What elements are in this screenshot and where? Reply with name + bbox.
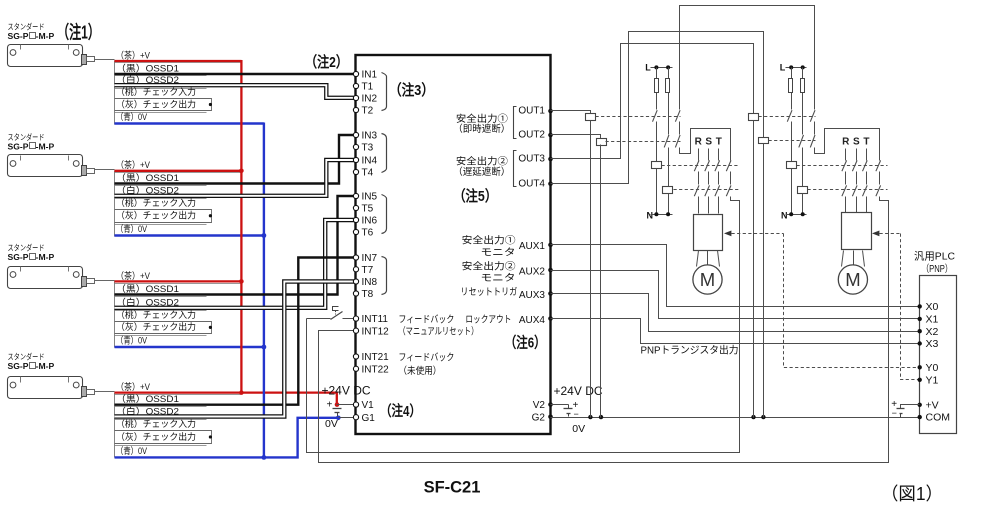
terminal IN2 — [353, 95, 358, 100]
PLC terminal X1 — [918, 317, 922, 321]
wire: sensor U1 pigtail — [95, 59, 115, 61]
svg-text:（青）0V: （青）0V — [116, 223, 148, 234]
svg-text:ロックアウト: ロックアウト — [465, 313, 511, 325]
sensor U2 wire label table — [114, 171, 116, 237]
wire: sensor U1 OSSD2 (double line) to IN2 — [115, 85, 354, 98]
wire: OUT4 riser to rail B — [551, 32, 764, 184]
svg-text:SG-P: SG-P — [8, 252, 29, 262]
wire: AUX3 to PLC X2 — [551, 294, 920, 332]
sensor U1 connector — [82, 55, 87, 65]
svg-text:-M-P: -M-P — [36, 142, 55, 152]
svg-text:OUT2: OUT2 — [518, 130, 545, 141]
terminal INT22 — [353, 366, 358, 371]
wire: sensor U4 OSSD2 (double line) to IN8 — [115, 282, 354, 417]
svg-text:（マニュアルリセット）: （マニュアルリセット） — [398, 326, 478, 338]
switch S1 manual reset at INT11 — [331, 312, 343, 320]
svg-text:（灰）チェック出力: （灰）チェック出力 — [116, 431, 196, 442]
wire: sensor U3 0V (blue) — [115, 346, 264, 348]
node: coil return junction — [761, 415, 765, 419]
terminal T5 — [353, 205, 358, 210]
svg-text:スタンダード: スタンダード — [8, 243, 45, 253]
wire: AUX1 to PLC X0 — [551, 245, 920, 307]
svg-text:（桃）チェック入力: （桃）チェック入力 — [116, 418, 196, 429]
svg-text:（桃）チェック入力: （桃）チェック入力 — [116, 309, 196, 320]
wire: sensor U1 0V (blue) — [115, 122, 264, 124]
svg-text:+V: +V — [926, 399, 939, 411]
svg-text:（注2）: （注2） — [305, 53, 348, 71]
svg-text:IN1: IN1 — [362, 70, 378, 81]
wire: +V red bus vertical — [240, 60, 242, 393]
svg-text:SG-P: SG-P — [8, 31, 29, 41]
dashed link: K3 to contacts — [759, 116, 816, 118]
svg-text:フィードバック: フィードバック — [398, 313, 454, 325]
wire: INT12 feedback loop (EDM right) — [319, 201, 889, 463]
dashed link: K2 to contacts — [606, 141, 681, 143]
node: coil return junction — [599, 415, 603, 419]
node: red bus junction S3 — [239, 279, 244, 284]
svg-text:S: S — [853, 137, 860, 148]
node: blue bus junction S3 — [262, 345, 267, 350]
contactor coil K1 — [586, 114, 596, 121]
svg-text:スタンダード: スタンダード — [8, 132, 45, 142]
wire: sensor U3 OSSD1 to IN5 — [115, 196, 354, 295]
svg-text:R: R — [842, 137, 850, 148]
svg-text:+24V DC: +24V DC — [554, 384, 603, 398]
PLC terminal COM — [918, 415, 922, 419]
PLC box — [920, 276, 957, 434]
svg-text:+24V DC: +24V DC — [322, 384, 371, 398]
three-phase lines with main contacts (right) — [845, 149, 847, 161]
sensor U3 wire label table — [114, 281, 116, 348]
svg-text:X1: X1 — [926, 314, 939, 326]
motor drive box (left) — [694, 215, 723, 251]
terminal T6 — [353, 229, 358, 234]
contactor coil K2 — [597, 139, 607, 146]
svg-text:AUX4: AUX4 — [519, 315, 546, 326]
svg-text:AUX2: AUX2 — [519, 266, 546, 277]
wire: K1 coil return to 0V — [590, 121, 592, 418]
svg-text:INT21: INT21 — [362, 352, 390, 363]
svg-text:M: M — [845, 269, 860, 290]
safety controller U5 SF-C21 box — [356, 55, 551, 434]
terminal INT12 — [353, 328, 358, 333]
svg-text:（注1）: （注1） — [57, 22, 100, 43]
contactor coil MC4 — [798, 187, 808, 194]
wire: OUT3 riser to rail C — [551, 44, 754, 159]
motor M2 — [838, 265, 867, 294]
PLC terminal +V — [918, 403, 922, 407]
node: coil return junction — [751, 415, 755, 419]
svg-text:安全出力②: 安全出力② — [462, 260, 516, 273]
terminal AUX2 — [548, 268, 553, 273]
svg-text:IN6: IN6 — [362, 216, 378, 227]
motor M1 — [693, 265, 722, 294]
svg-text:T2: T2 — [362, 106, 374, 117]
terminal IN4 — [353, 157, 358, 162]
input group bracket — [382, 195, 387, 234]
wire: OUT1 to contactor coil K1 — [551, 111, 591, 114]
svg-text:V2: V2 — [533, 400, 546, 411]
wire: INT11 feedback loop (EDM left) — [307, 318, 331, 320]
svg-text:V1: V1 — [362, 400, 375, 411]
svg-text:T5: T5 — [362, 204, 374, 215]
motor drive box (right) — [842, 213, 872, 250]
three-phase lines with main contacts (left) — [698, 149, 700, 161]
svg-text:M: M — [700, 269, 715, 290]
wires: drive to motor (left) — [697, 251, 699, 267]
svg-text:-M-P: -M-P — [36, 31, 55, 41]
node: coil return junction — [588, 415, 592, 419]
svg-text:（灰）チェック出力: （灰）チェック出力 — [116, 210, 196, 221]
dashed link: MC4 to main contacts — [808, 189, 888, 191]
wire: AUX2 to PLC X1 — [551, 271, 920, 319]
wire: sensor U2 +V (brown/red) — [115, 170, 242, 172]
terminal OUT4 — [548, 181, 553, 186]
svg-text:AUX1: AUX1 — [519, 241, 546, 252]
svg-text:IN3: IN3 — [362, 131, 378, 142]
svg-text:OUT4: OUT4 — [518, 178, 545, 189]
dashed link: MC1 to main contacts — [662, 165, 739, 167]
svg-text:SF-C21: SF-C21 — [424, 479, 481, 497]
svg-text:（青）0V: （青）0V — [116, 111, 148, 122]
battery B3 at PLC +V/COM — [901, 405, 920, 409]
svg-text:（青）0V: （青）0V — [116, 335, 148, 346]
bracket OUT1/OUT2 — [514, 107, 517, 139]
terminal IN7 — [353, 255, 358, 260]
svg-text:X0: X0 — [926, 301, 939, 313]
terminal T4 — [353, 169, 358, 174]
svg-text:-M-P: -M-P — [36, 361, 55, 371]
sensor U4 wire label table — [114, 393, 116, 458]
svg-text:汎用PLC: 汎用PLC — [914, 250, 955, 263]
PLC terminal Y0 — [918, 365, 922, 369]
svg-text:（茶）+V: （茶）+V — [116, 49, 151, 60]
input group bracket — [382, 257, 387, 295]
node: check loop junction dot U2 — [209, 214, 212, 217]
wire: sensor U1 check input/output loop — [115, 99, 212, 111]
node: blue bus junction S4 — [262, 455, 267, 460]
svg-text:モニタ: モニタ — [481, 246, 516, 258]
contact K3 NO on fuse line 1 — [787, 110, 792, 122]
svg-text:T: T — [863, 137, 869, 148]
svg-text:T6: T6 — [362, 228, 374, 239]
svg-text:AUX3: AUX3 — [519, 290, 546, 301]
terminal OUT3 — [548, 157, 553, 162]
svg-text:T4: T4 — [362, 168, 374, 179]
wire: K4 coil return to 0V — [763, 144, 765, 418]
svg-text:モニタ: モニタ — [481, 272, 516, 284]
terminal T1 — [353, 83, 358, 88]
terminal INT11 — [353, 316, 358, 321]
wire: sensor U1 +V (brown/red) — [115, 60, 242, 62]
svg-text:（注3）: （注3） — [389, 81, 434, 99]
terminal INT21 — [353, 354, 358, 359]
dashed link: K1 to contacts — [596, 116, 681, 118]
svg-text:PNPトランジスタ出力: PNPトランジスタ出力 — [641, 343, 739, 356]
fuse F1 — [656, 68, 658, 110]
EDM line exit jog (left) — [731, 197, 740, 201]
wire: AUX4 to PLC X3 — [551, 319, 920, 344]
PLC terminal X2 — [918, 329, 922, 333]
bracket OUT3/OUT4 — [514, 151, 517, 187]
svg-text:（青）0V: （青）0V — [116, 445, 148, 456]
contact K2 NO on fuse line 2 — [664, 135, 669, 148]
svg-text:（遅延遮断）: （遅延遮断） — [453, 165, 510, 178]
node: red wire at V1 — [335, 402, 340, 407]
contactor coil K3 — [749, 114, 759, 121]
wire: 0V blue bus vertical — [263, 123, 265, 458]
fuse F3 — [791, 68, 793, 110]
svg-text:（黒）OSSD1: （黒）OSSD1 — [116, 63, 179, 73]
input group bracket — [382, 134, 387, 173]
dashed link: MC2 to main contacts — [674, 189, 739, 191]
svg-text:0V: 0V — [572, 423, 585, 435]
terminal AUX4 — [548, 316, 553, 321]
terminal IN1 — [353, 71, 358, 76]
svg-text:0V: 0V — [325, 418, 338, 430]
sensor U3 connector — [82, 277, 87, 287]
sensor U3 body (SG-P light curtain) — [8, 267, 83, 289]
wire: 0V rail G2 to PLC COM — [551, 417, 920, 419]
sensor U2 body (SG-P light curtain) — [8, 155, 83, 177]
dashed link: right drive to Y1 — [901, 234, 920, 380]
series EDM line contacts (right) — [814, 109, 816, 111]
fuse F2 — [668, 68, 670, 135]
svg-text:（桃）チェック入力: （桃）チェック入力 — [116, 197, 196, 208]
sensor U2 connector — [82, 166, 87, 176]
wire: sensor U3 pigtail — [95, 280, 115, 282]
terminal IN8 — [353, 279, 358, 284]
wire: sensor U4 check input/output loop — [115, 431, 212, 444]
svg-text:X2: X2 — [926, 326, 939, 338]
svg-text:（即時遮断）: （即時遮断） — [453, 122, 510, 135]
svg-text:IN5: IN5 — [362, 192, 378, 203]
svg-text:G2: G2 — [532, 412, 546, 423]
PLC terminal Y1 — [918, 378, 922, 382]
svg-text:（桃）チェック入力: （桃）チェック入力 — [116, 86, 196, 97]
wire: sensor U2 pigtail — [95, 169, 115, 171]
terminal IN6 — [353, 217, 358, 222]
svg-text:（注6）: （注6） — [505, 334, 546, 352]
svg-text:安全出力①: 安全出力① — [462, 233, 516, 246]
dashed control link into drive (right) — [872, 231, 879, 237]
svg-text:スタンダード: スタンダード — [8, 22, 45, 32]
terminal G1 — [353, 415, 358, 420]
svg-text:Y1: Y1 — [926, 374, 939, 386]
node: check loop junction dot U1 — [209, 103, 212, 106]
sensor U1 body (SG-P light curtain) — [8, 45, 83, 67]
svg-text:S: S — [705, 137, 712, 148]
node: check loop junction dot U4 — [209, 435, 212, 438]
svg-text:安全出力②: 安全出力② — [456, 155, 508, 168]
terminal OUT2 — [548, 133, 553, 138]
terminal V1 — [353, 402, 358, 407]
svg-text:（黒）OSSD1: （黒）OSSD1 — [116, 394, 179, 404]
wire: K3 coil return to 0V — [753, 121, 755, 418]
svg-text:（黒）OSSD1: （黒）OSSD1 — [116, 173, 179, 183]
svg-text:IN8: IN8 — [362, 277, 378, 288]
svg-text:−: − — [892, 408, 897, 418]
svg-text:N: N — [647, 210, 654, 220]
svg-text:（茶）+V: （茶）+V — [116, 270, 151, 281]
svg-text:（黒）OSSD1: （黒）OSSD1 — [116, 284, 179, 294]
svg-text:（注5）: （注5） — [453, 187, 497, 205]
sensor U4 body (SG-P light curtain) — [8, 377, 83, 399]
svg-text:（図1）: （図1） — [881, 484, 943, 504]
svg-text:OUT3: OUT3 — [518, 154, 545, 165]
node: blue bus junction S2 — [262, 233, 267, 238]
svg-text:T1: T1 — [362, 82, 374, 93]
dashed link: MC3 to main contacts — [797, 165, 888, 167]
terminal OUT1 — [548, 109, 553, 114]
terminal T3 — [353, 144, 358, 149]
svg-text:IN2: IN2 — [362, 94, 378, 105]
node: blue wire at G1 — [336, 416, 341, 421]
wire: sensor U4 OSSD1 to IN7 — [115, 258, 354, 405]
svg-text:IN4: IN4 — [362, 156, 378, 167]
svg-text:L: L — [780, 63, 786, 73]
node: red bus junction S4 — [239, 390, 244, 395]
terminal T2 — [353, 107, 358, 112]
dashed control link into drive (left) — [724, 231, 731, 237]
wire: G1 link — [339, 417, 354, 419]
svg-text:T: T — [716, 137, 722, 148]
svg-text:リセットトリガ: リセットトリガ — [460, 286, 517, 298]
svg-text:（灰）チェック出力: （灰）チェック出力 — [116, 321, 196, 332]
svg-text:L: L — [645, 63, 651, 73]
terminal AUX1 — [548, 243, 553, 248]
svg-text:+: + — [327, 400, 333, 411]
PLC terminal X0 — [918, 304, 922, 308]
wire: OUT2 to contactor coil K2 — [551, 135, 601, 139]
svg-text:（茶）+V: （茶）+V — [116, 159, 151, 170]
wire: sensor U3 +V (brown/red) — [115, 280, 242, 282]
svg-text:-M-P: -M-P — [36, 252, 55, 262]
wire: V1 link — [337, 404, 354, 406]
wire: sensor U4 +V (brown/red) — [115, 393, 337, 404]
contact K1 NO on fuse line 1 — [653, 110, 658, 122]
terminal T8 — [353, 291, 358, 296]
svg-text:G1: G1 — [362, 413, 376, 424]
svg-text:OUT1: OUT1 — [518, 106, 545, 117]
svg-text:SG-P: SG-P — [8, 361, 29, 371]
node: check loop junction dot U3 — [209, 326, 212, 329]
series EDM line contacts (left) — [679, 109, 681, 111]
input group bracket — [382, 73, 387, 111]
svg-text:SG-P: SG-P — [8, 142, 29, 152]
wire: top rail A (EDM link) — [680, 6, 815, 110]
svg-text:N: N — [781, 210, 788, 220]
sensor U4 connector — [82, 387, 87, 397]
svg-text:（灰）チェック出力: （灰）チェック出力 — [116, 98, 196, 109]
svg-text:T7: T7 — [362, 265, 374, 276]
svg-text:（茶）+V: （茶）+V — [116, 381, 151, 392]
EDM line exit jog (right) — [880, 197, 889, 201]
svg-text:スタンダード: スタンダード — [8, 352, 45, 362]
wire: sensor U3 check input/output loop — [115, 322, 212, 334]
svg-text:（PNP）: （PNP） — [922, 263, 953, 275]
svg-text:COM: COM — [926, 412, 951, 424]
svg-text:フィードバック: フィードバック — [398, 352, 454, 364]
terminal IN5 — [353, 193, 358, 198]
wire: sensor U3 OSSD2 (double line) to IN6 — [115, 220, 354, 308]
PLC terminal X3 — [918, 341, 922, 345]
wire: sensor U1 OSSD1 to IN1 — [115, 73, 354, 75]
contactor coil MC1 — [652, 162, 662, 169]
contactor coil K4 — [759, 138, 769, 144]
contactor coil MC2 — [663, 187, 673, 194]
terminal V2 — [548, 402, 553, 407]
svg-text:T8: T8 — [362, 289, 374, 300]
wire: sensor U2 0V (blue) — [115, 234, 264, 236]
wire: K2 coil return to 0V — [600, 145, 602, 418]
terminal G2 — [548, 415, 553, 420]
svg-text:R: R — [695, 137, 703, 148]
fuse F4 — [802, 68, 804, 135]
sensor U1 wire label table — [114, 61, 116, 125]
dashed link: left drive to Y0 — [784, 234, 920, 368]
svg-text:X3: X3 — [926, 338, 939, 350]
terminal AUX3 — [548, 291, 553, 296]
svg-text:IN7: IN7 — [362, 253, 378, 264]
node: red bus junction S2 — [239, 169, 244, 174]
terminal IN3 — [353, 132, 358, 137]
dashed link: K4 to contacts — [769, 140, 816, 142]
contact K4 NO on fuse line 2 — [799, 135, 804, 148]
wire: sensor U2 OSSD1 to IN3 — [115, 135, 354, 184]
svg-text:Y0: Y0 — [926, 362, 939, 374]
contactor coil MC3 — [787, 162, 797, 169]
svg-text:（注4）: （注4） — [380, 402, 421, 420]
terminal T7 — [353, 267, 358, 272]
wire: sensor U4 0V (blue) — [115, 418, 339, 458]
wires: drive to motor (right) — [842, 251, 844, 267]
svg-text:INT11: INT11 — [362, 314, 389, 325]
wire: sensor U4 pigtail — [95, 391, 115, 393]
svg-text:（未使用）: （未使用） — [398, 364, 441, 377]
wire: sensor U2 check input/output loop — [115, 210, 212, 223]
svg-text:INT22: INT22 — [362, 364, 390, 375]
wire: sensor U2 OSSD2 (double line) to IN4 — [115, 160, 354, 196]
svg-text:INT12: INT12 — [362, 326, 390, 337]
svg-text:T3: T3 — [362, 143, 374, 154]
